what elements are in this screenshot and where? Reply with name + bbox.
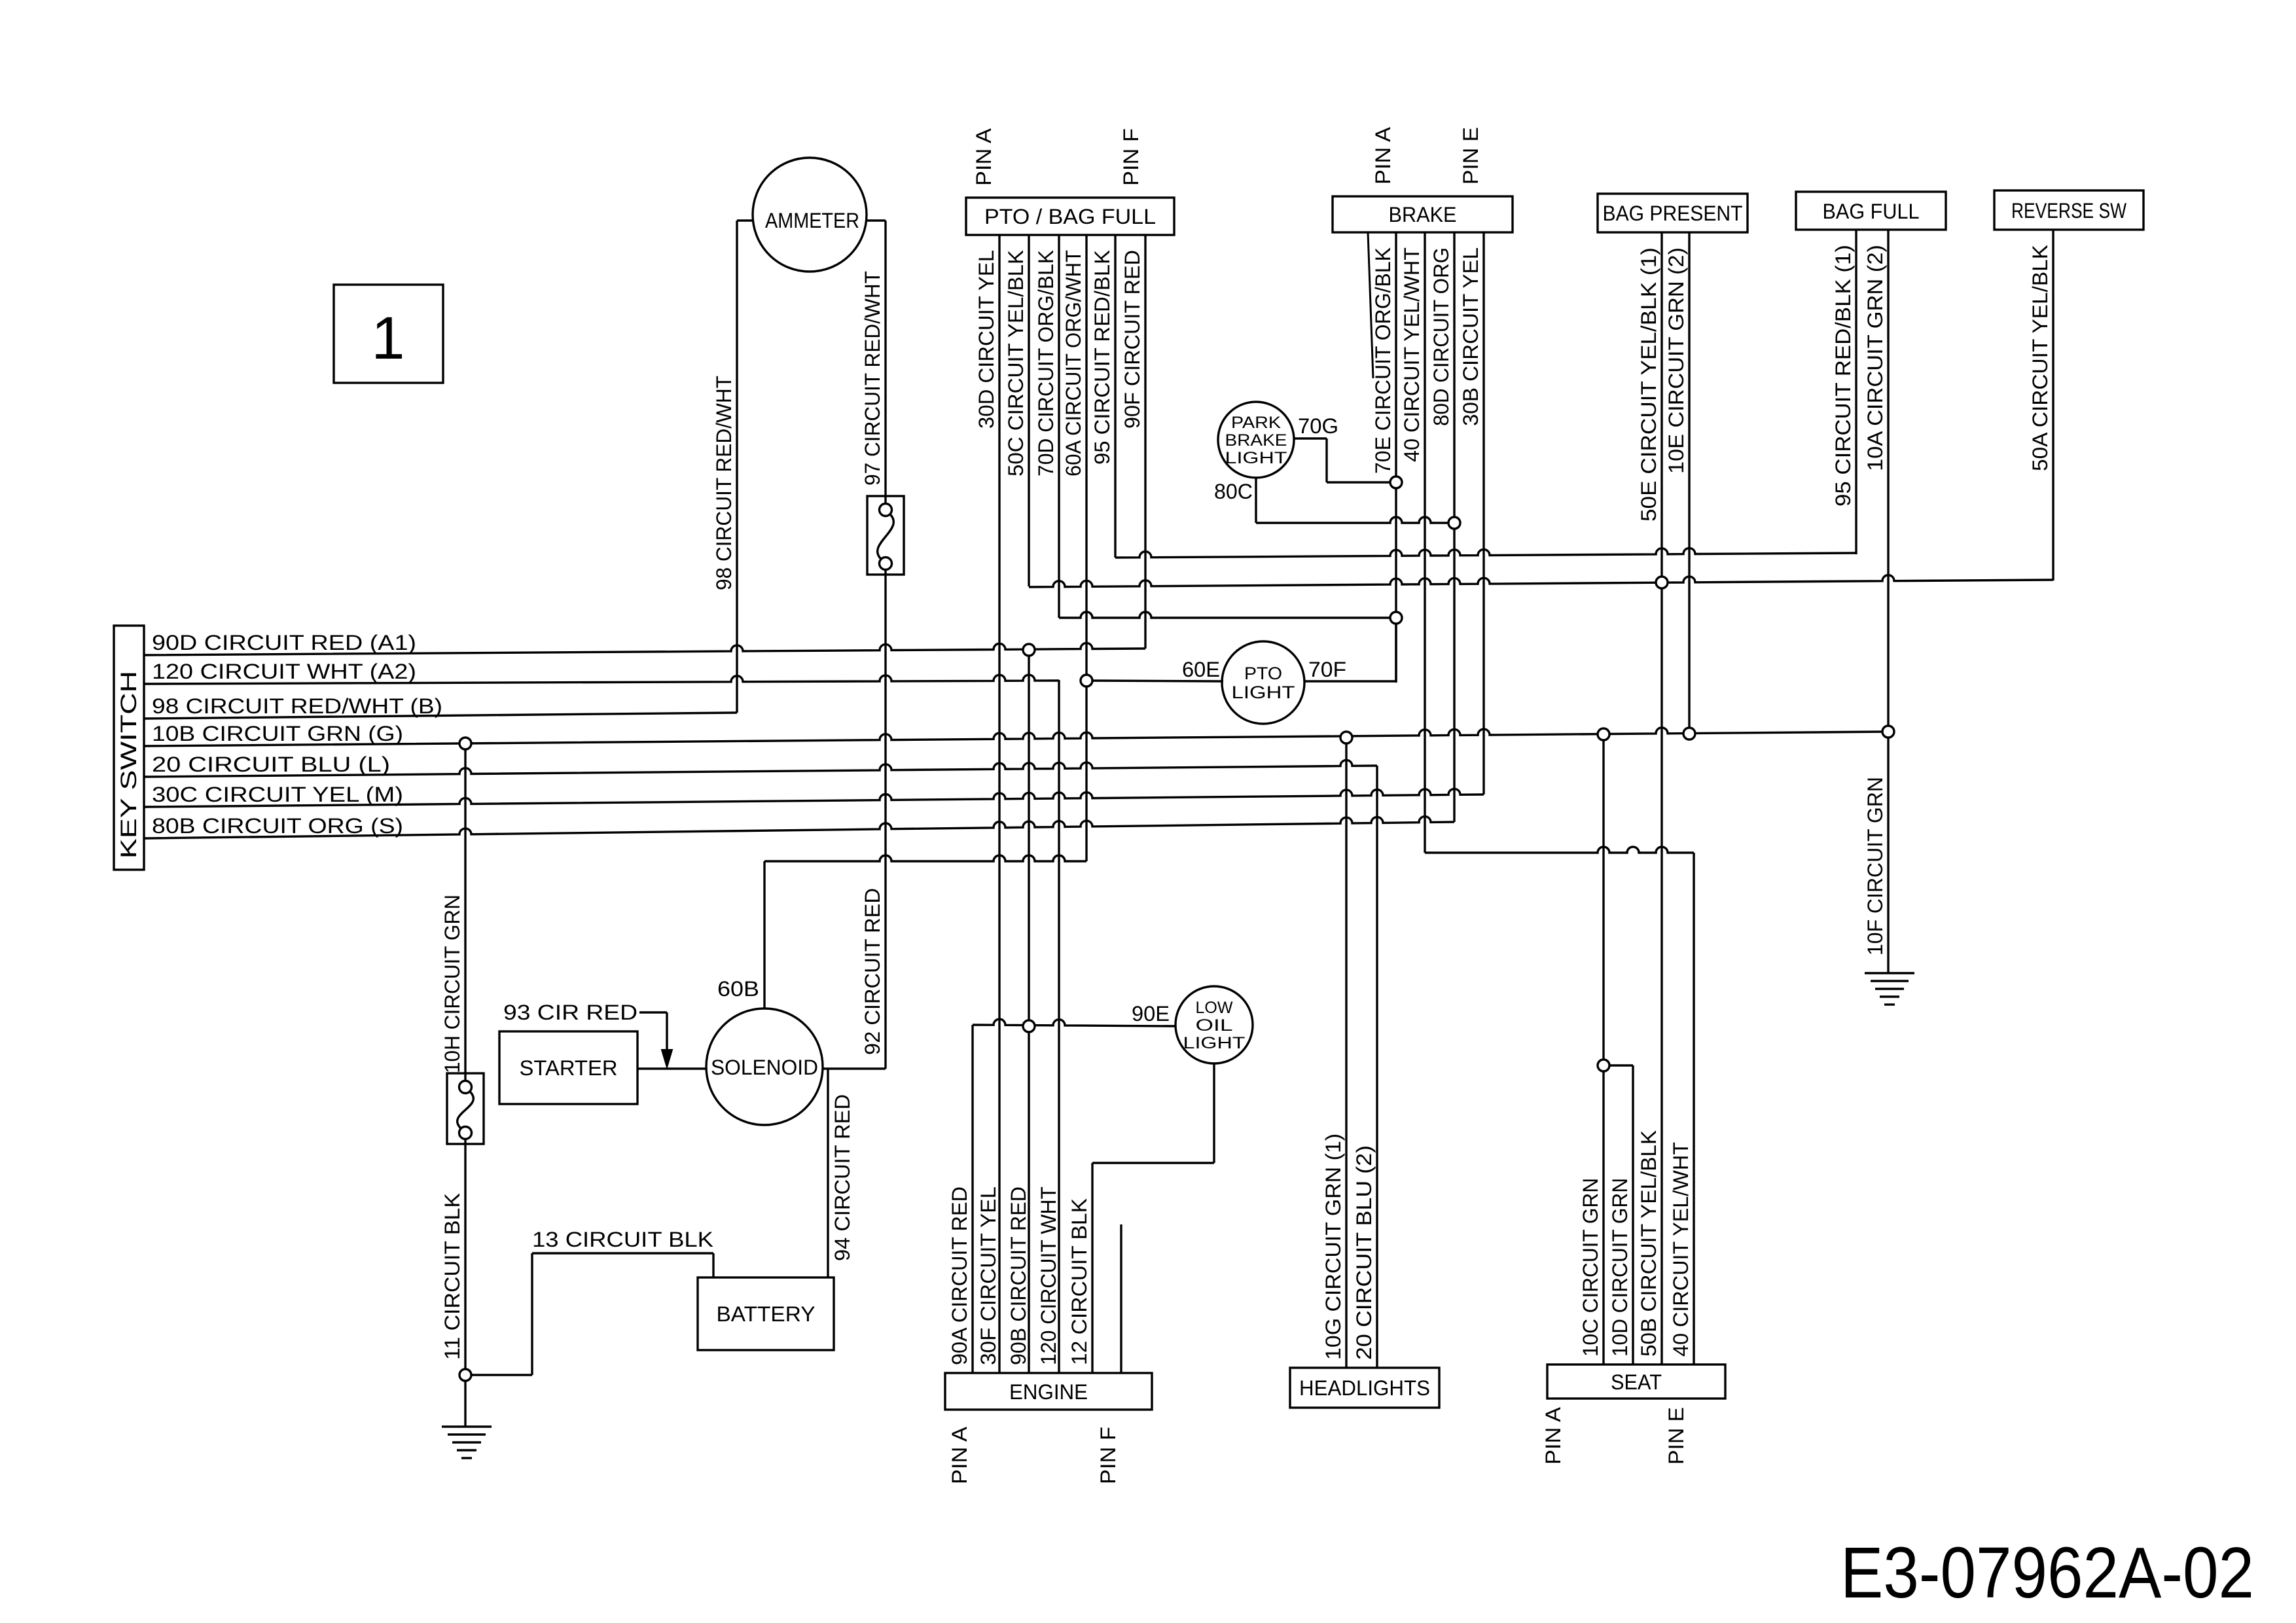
svg-text:90A CIRCUIT RED: 90A CIRCUIT RED xyxy=(948,1186,971,1365)
svg-text:50E CIRCUIT YEL/BLK (1): 50E CIRCUIT YEL/BLK (1) xyxy=(1637,247,1660,522)
svg-text:95 CIRCUIT RED/BLK (1): 95 CIRCUIT RED/BLK (1) xyxy=(1831,245,1855,507)
svg-text:PTO / BAG FULL: PTO / BAG FULL xyxy=(984,205,1156,228)
svg-text:50C CIRCUIT YEL/BLK: 50C CIRCUIT YEL/BLK xyxy=(1004,250,1028,476)
svg-text:KEY SWITCH: KEY SWITCH xyxy=(117,671,141,859)
svg-text:BATTERY: BATTERY xyxy=(717,1302,816,1326)
svg-text:PIN A: PIN A xyxy=(948,1426,971,1484)
svg-text:50B CIRCUIT YEL/BLK: 50B CIRCUIT YEL/BLK xyxy=(1637,1130,1660,1357)
svg-text:10C CIRCUIT GRN: 10C CIRCUIT GRN xyxy=(1579,1178,1602,1357)
svg-text:1: 1 xyxy=(371,305,404,372)
svg-text:40 CIRCUIT YEL/WHT: 40 CIRCUIT YEL/WHT xyxy=(1669,1142,1693,1357)
svg-text:60B: 60B xyxy=(717,977,759,1001)
svg-text:97 CIRCUIT RED/WHT: 97 CIRCUIT RED/WHT xyxy=(861,271,884,486)
svg-text:ENGINE: ENGINE xyxy=(1009,1380,1088,1404)
svg-text:10F CIRCUIT GRN: 10F CIRCUIT GRN xyxy=(1863,777,1887,955)
svg-text:PIN A: PIN A xyxy=(1371,126,1395,185)
svg-text:98 CIRCUIT RED/WHT (B): 98 CIRCUIT RED/WHT (B) xyxy=(152,694,442,718)
svg-text:20 CIRCUIT BLU (L): 20 CIRCUIT BLU (L) xyxy=(152,753,390,776)
svg-text:40 CIRCUIT YEL/WHT: 40 CIRCUIT YEL/WHT xyxy=(1400,247,1424,462)
svg-text:10E CIRCUIT GRN (2): 10E CIRCUIT GRN (2) xyxy=(1664,247,1688,474)
svg-text:94 CIRCUIT RED: 94 CIRCUIT RED xyxy=(831,1094,854,1261)
svg-text:BAG PRESENT: BAG PRESENT xyxy=(1603,202,1743,225)
svg-text:20 CIRCUIT BLU (2): 20 CIRCUIT BLU (2) xyxy=(1352,1145,1376,1360)
svg-text:AMMETER: AMMETER xyxy=(765,209,859,232)
svg-text:PIN A: PIN A xyxy=(1541,1406,1565,1465)
svg-text:PTO: PTO xyxy=(1244,664,1282,683)
svg-text:PIN F: PIN F xyxy=(1119,128,1143,186)
svg-text:10D CIRCUIT GRN: 10D CIRCUIT GRN xyxy=(1608,1178,1632,1357)
svg-text:PARK: PARK xyxy=(1231,414,1281,432)
svg-text:LIGHT: LIGHT xyxy=(1232,683,1295,702)
svg-text:LOW: LOW xyxy=(1196,999,1233,1017)
svg-text:PIN F: PIN F xyxy=(1096,1427,1120,1484)
svg-text:92 CIRCUIT RED: 92 CIRCUIT RED xyxy=(861,888,884,1055)
svg-text:BAG FULL: BAG FULL xyxy=(1823,200,1920,223)
svg-text:BRAKE: BRAKE xyxy=(1225,431,1287,450)
svg-text:98 CIRCUIT RED/WHT: 98 CIRCUIT RED/WHT xyxy=(712,376,736,590)
svg-text:90F CIRCUIT RED: 90F CIRCUIT RED xyxy=(1121,250,1144,429)
svg-text:80D CIRCUIT ORG: 80D CIRCUIT ORG xyxy=(1429,247,1453,426)
svg-text:12 CIRCUIT BLK: 12 CIRCUIT BLK xyxy=(1067,1198,1091,1365)
svg-text:30C CIRCUIT YEL (M): 30C CIRCUIT YEL (M) xyxy=(152,783,403,806)
svg-text:SOLENOID: SOLENOID xyxy=(711,1056,818,1079)
svg-text:93 CIR RED: 93 CIR RED xyxy=(503,1001,637,1024)
svg-text:90E: 90E xyxy=(1132,1002,1170,1026)
svg-text:E3-07962A-02: E3-07962A-02 xyxy=(1840,1533,2254,1613)
svg-text:70E CIRCUIT ORG/BLK: 70E CIRCUIT ORG/BLK xyxy=(1371,247,1395,474)
svg-text:LIGHT: LIGHT xyxy=(1183,1034,1246,1052)
svg-text:LIGHT: LIGHT xyxy=(1225,449,1287,467)
svg-text:30B CIRCUIT YEL: 30B CIRCUIT YEL xyxy=(1459,247,1482,426)
svg-text:90D CIRCUIT RED (A1): 90D CIRCUIT RED (A1) xyxy=(152,631,416,654)
svg-text:10H CIRCUIT GRN: 10H CIRCUIT GRN xyxy=(440,895,464,1073)
svg-text:SEAT: SEAT xyxy=(1611,1370,1662,1394)
svg-text:10B CIRCUIT GRN (G): 10B CIRCUIT GRN (G) xyxy=(152,722,403,745)
svg-text:PIN A: PIN A xyxy=(972,128,996,186)
svg-text:80B CIRCUIT ORG (S): 80B CIRCUIT ORG (S) xyxy=(152,814,403,838)
svg-text:10G CIRCUIT GRN (1): 10G CIRCUIT GRN (1) xyxy=(1321,1133,1345,1360)
svg-text:70F: 70F xyxy=(1308,658,1346,681)
svg-text:70D CIRCUIT ORG/BLK: 70D CIRCUIT ORG/BLK xyxy=(1034,250,1058,476)
svg-text:60A CIRCUIT ORG/WHT: 60A CIRCUIT ORG/WHT xyxy=(1062,250,1085,476)
svg-text:10A CIRCUIT GRN (2): 10A CIRCUIT GRN (2) xyxy=(1863,245,1887,471)
svg-text:13 CIRCUIT BLK: 13 CIRCUIT BLK xyxy=(532,1228,713,1251)
svg-text:80C: 80C xyxy=(1214,480,1253,503)
svg-text:BRAKE: BRAKE xyxy=(1389,203,1457,226)
svg-text:70G: 70G xyxy=(1298,414,1338,438)
svg-text:120 CIRCUIT WHT: 120 CIRCUIT WHT xyxy=(1037,1186,1060,1365)
svg-text:60E: 60E xyxy=(1182,658,1220,681)
svg-text:HEADLIGHTS: HEADLIGHTS xyxy=(1299,1376,1430,1400)
svg-text:30F CIRCUIT YEL: 30F CIRCUIT YEL xyxy=(977,1186,1000,1365)
svg-text:30D CIRCUIT YEL: 30D CIRCUIT YEL xyxy=(975,250,998,429)
svg-text:11 CIRCUIT BLK: 11 CIRCUIT BLK xyxy=(440,1193,464,1360)
svg-text:120 CIRCUIT WHT (A2): 120 CIRCUIT WHT (A2) xyxy=(152,660,416,683)
svg-text:REVERSE SW: REVERSE SW xyxy=(2011,199,2127,223)
svg-text:50A CIRCUIT YEL/BLK: 50A CIRCUIT YEL/BLK xyxy=(2028,245,2052,471)
svg-text:OIL: OIL xyxy=(1196,1016,1233,1035)
svg-text:STARTER: STARTER xyxy=(520,1056,618,1080)
svg-text:PIN E: PIN E xyxy=(1459,127,1482,185)
svg-text:90B CIRCUIT RED: 90B CIRCUIT RED xyxy=(1007,1186,1030,1365)
svg-text:95 CIRCUIT RED/BLK: 95 CIRCUIT RED/BLK xyxy=(1090,250,1114,465)
svg-text:PIN E: PIN E xyxy=(1664,1407,1688,1465)
